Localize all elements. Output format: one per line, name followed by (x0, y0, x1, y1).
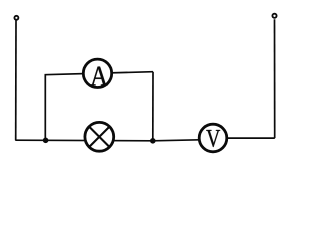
wire bottom (15, 140, 199, 141)
terminal (top-left) (14, 16, 18, 20)
wire branch top (45, 72, 154, 75)
ammeter U1 (83, 59, 111, 87)
voltmeter U2 (199, 124, 227, 152)
wire branch left vertical (44, 75, 46, 141)
lamp L1 (circle with X) (85, 122, 114, 151)
wire right vertical (274, 19, 276, 138)
wire bottom right (227, 137, 275, 139)
junction (right) (150, 138, 156, 144)
terminal (top-right) (272, 14, 276, 18)
wire branch right vertical (152, 72, 154, 141)
wire left vertical (15, 20, 17, 140)
junction (left) (43, 138, 49, 144)
